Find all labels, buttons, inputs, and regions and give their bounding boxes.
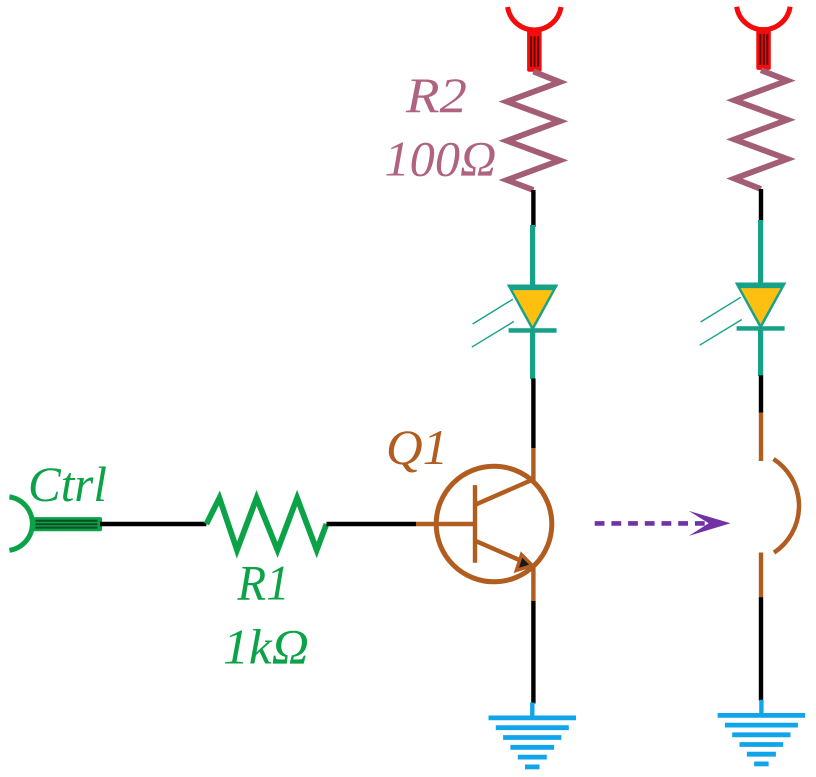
wire LED down (right) [759, 375, 763, 413]
svg-text:1kΩ: 1kΩ [223, 618, 309, 674]
ground (left) [489, 703, 577, 767]
ground (right) [718, 700, 806, 764]
svg-text:R1: R1 [237, 555, 290, 611]
switch arc (right) [774, 459, 799, 553]
svg-text:R2: R2 [405, 67, 467, 123]
wire resistor to LED (right) [759, 189, 763, 222]
resistor R2 [507, 72, 560, 191]
transistor Q1 [416, 448, 552, 601]
svg-text:Ctrl: Ctrl [28, 456, 107, 512]
wire emitter to ground [531, 601, 535, 704]
wire R2 to LED [531, 190, 535, 227]
wire Ctrl to R1 [100, 522, 206, 526]
resistor R1 [206, 498, 326, 550]
svg-text:Q1: Q1 [386, 419, 448, 475]
switch stub lower (right) [759, 553, 763, 598]
power supply connector (right column) [737, 7, 790, 70]
svg-text:100Ω: 100Ω [385, 130, 497, 186]
resistor (right column) [734, 70, 787, 189]
LED D1 [472, 225, 559, 379]
wire to ground (right) [759, 597, 763, 701]
connector Ctrl [9, 497, 102, 550]
wire R1 to base [327, 522, 417, 526]
dashed arrow [595, 511, 731, 536]
wire LED to collector [531, 379, 535, 449]
LED (right column) [700, 220, 787, 376]
switch stub upper (right) [759, 413, 763, 461]
power supply connector (left column) [508, 7, 561, 72]
